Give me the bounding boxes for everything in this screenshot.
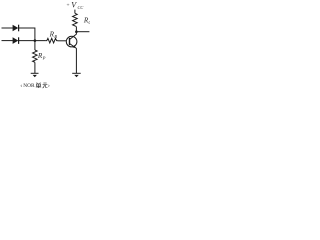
resistor RP (33, 50, 38, 62)
caption glyph dan (36, 83, 41, 89)
base bar (69, 38, 71, 45)
diode D2 (13, 37, 19, 44)
diode D1 (13, 25, 19, 32)
wire input A (2, 27, 13, 29)
svg-text:NOR: NOR (23, 83, 35, 89)
svg-text:V: V (71, 1, 77, 10)
collector rail (75, 32, 77, 35)
svg-text:B: B (54, 34, 57, 39)
wire RB to base (58, 40, 67, 42)
emitter arrow (73, 45, 76, 48)
ground left (31, 72, 39, 74)
collector lead (70, 34, 77, 39)
ground right (72, 72, 81, 74)
node junction dot (34, 39, 37, 42)
emitter rail down (75, 48, 77, 73)
wire RC to node (75, 27, 77, 32)
Vcc lead (74, 10, 76, 14)
output wire (76, 31, 89, 33)
svg-text:C: C (88, 20, 90, 25)
wire from D2 to node (19, 40, 46, 42)
wire corner down to node (34, 28, 36, 41)
svg-text:‹: ‹ (20, 83, 22, 89)
wire node to RP (34, 41, 36, 50)
svg-text:P: P (42, 56, 46, 61)
svg-text:CC: CC (78, 5, 84, 10)
svg-text:›: › (48, 83, 50, 89)
resistor RB (46, 38, 58, 43)
caption glyph yuan (43, 83, 48, 88)
caption NOR cell (20, 83, 35, 89)
wire from D1 to corner (19, 27, 35, 29)
transistor Q1 circle (66, 36, 77, 47)
resistor RC (73, 13, 78, 26)
emitter lead (70, 44, 77, 49)
node output dot (75, 30, 78, 33)
wire RP to ground (34, 62, 36, 73)
wire input B (2, 40, 13, 42)
svg-text:+: + (67, 3, 70, 9)
